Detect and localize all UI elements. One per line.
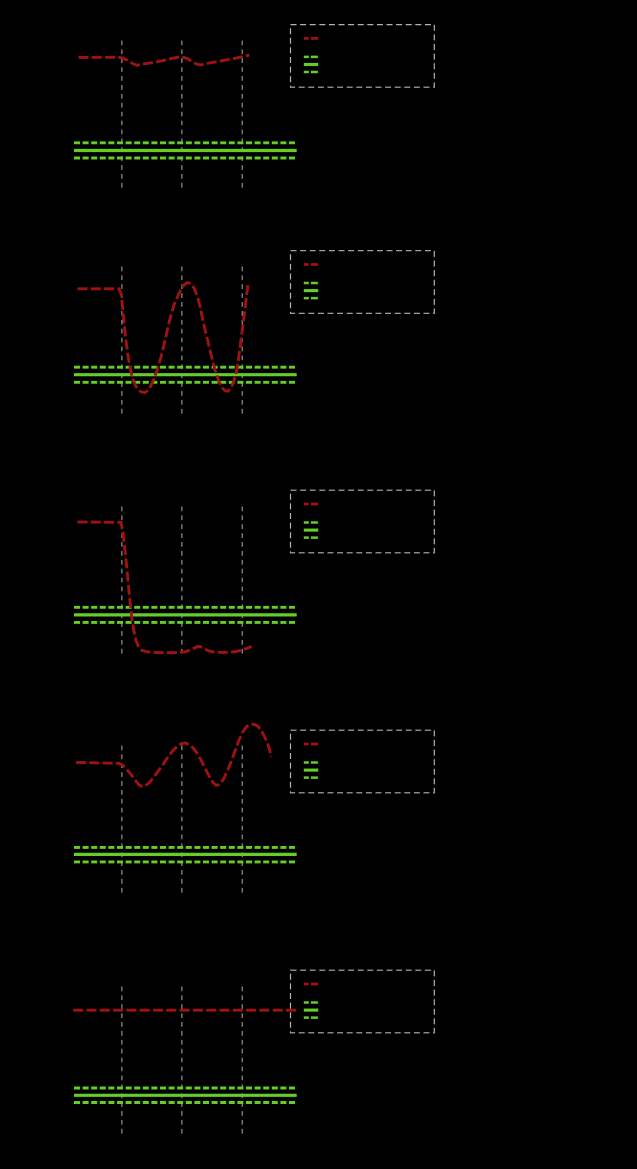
panel 3 green solid line	[74, 613, 297, 616]
panel 1 red series	[79, 55, 250, 65]
panel 4 legend green dashed handle	[304, 761, 318, 764]
panel 2 green upper dashed line	[74, 366, 297, 369]
panel 2 legend box	[291, 251, 435, 314]
panel 5 legend green solid handle	[304, 1009, 318, 1012]
panel 2 legend green dashed handle 2	[304, 297, 318, 300]
panel 4 legend box	[291, 730, 435, 793]
panel 5 green lower dashed line	[74, 1101, 297, 1104]
panel 4 legend green dashed handle 2	[304, 776, 318, 779]
panel 4 legend red handle	[304, 743, 318, 746]
panel 3 green upper dashed line	[74, 606, 297, 609]
panel 5 gridlines	[122, 987, 242, 1136]
panel 4 red series	[76, 724, 271, 786]
panel 3 red series	[78, 522, 252, 653]
panel 2 gridlines	[122, 267, 242, 416]
panel 1 green solid line	[74, 149, 297, 152]
panel 3 legend green dashed handle 2	[304, 536, 318, 539]
panel 5 legend box	[291, 970, 435, 1033]
panel 5 legend red handle	[304, 983, 318, 986]
panel 3 legend red handle	[304, 503, 318, 506]
panel 2 legend red handle	[304, 263, 318, 266]
panel 2 legend green dashed handle	[304, 282, 318, 285]
panel 5 red series	[73, 1009, 298, 1012]
panel 4 gridlines	[122, 746, 242, 897]
panel 5 green upper dashed line	[74, 1087, 297, 1090]
panel 3 green lower dashed line	[74, 621, 297, 624]
panel 4 legend green solid handle	[304, 769, 318, 772]
panel 3 legend green solid handle	[304, 529, 318, 532]
panel 1 green lower dashed line	[74, 157, 297, 160]
panel 4 green lower dashed line	[74, 860, 297, 863]
panel 1 gridlines	[122, 41, 242, 189]
panel 2 red series	[78, 283, 249, 393]
panel 4 green upper dashed line	[74, 846, 297, 849]
panel 1 legend red handle	[304, 37, 318, 40]
panel 3 legend box	[291, 490, 435, 553]
panel 5 legend green dashed handle	[304, 1001, 318, 1004]
panel 3 gridlines	[122, 507, 242, 657]
panel 4 green solid line	[74, 853, 297, 856]
panel 2 green solid line	[74, 373, 297, 376]
panel 1 legend green solid handle	[304, 63, 318, 66]
panel 5 legend green dashed handle 2	[304, 1016, 318, 1019]
panel 3 legend green dashed handle	[304, 521, 318, 524]
panel 1 legend box	[291, 25, 435, 88]
panel 5 green solid line	[74, 1094, 297, 1097]
panel 1 green upper dashed line	[74, 141, 297, 144]
panel 2 legend green solid handle	[304, 289, 318, 292]
panel 1 legend green dashed handle 2	[304, 71, 318, 74]
panel 2 green lower dashed line	[74, 381, 297, 384]
panel 1 legend green dashed handle	[304, 56, 318, 59]
